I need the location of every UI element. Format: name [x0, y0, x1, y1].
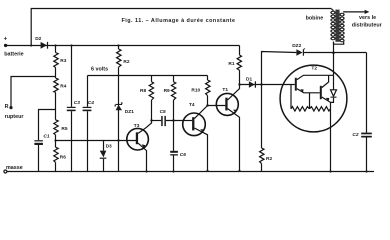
Qb emitter	[322, 97, 331, 172]
rupteur wire	[11, 77, 56, 108]
svg-text:R3: R3	[60, 58, 66, 64]
junction C2/ground	[365, 170, 367, 172]
svg-text:R9: R9	[164, 88, 170, 94]
diode D1	[240, 84, 295, 86]
diode D2	[41, 42, 49, 49]
svg-text:+: +	[4, 37, 8, 43]
wire C1 top	[39, 110, 56, 141]
diode D3	[103, 141, 105, 151]
node battery/R2	[117, 44, 119, 46]
resistor R9	[173, 76, 175, 82]
junction T1 emitter/ground	[238, 170, 240, 172]
svg-text:R4: R4	[60, 84, 66, 90]
svg-text:C2: C2	[352, 132, 358, 138]
protection diode	[333, 75, 335, 90]
coil lead down	[333, 42, 335, 75]
junction C6/ground	[172, 170, 174, 172]
svg-text:T4: T4	[189, 102, 195, 108]
svg-text:vers le: vers le	[359, 15, 376, 21]
resistor R3	[55, 46, 57, 53]
svg-text:batterie: batterie	[4, 52, 23, 58]
capacitor C2	[361, 133, 372, 138]
node battery/C3	[70, 44, 72, 46]
svg-text:C6: C6	[180, 152, 186, 158]
svg-text:D1: D1	[246, 77, 252, 83]
Qa bar	[295, 78, 297, 91]
capacitor C3	[71, 46, 73, 107]
Qb collector	[322, 75, 329, 87]
transistor T3	[127, 128, 149, 150]
Qa emitter	[297, 89, 320, 93]
svg-text:C3: C3	[74, 100, 80, 106]
svg-text:T3: T3	[134, 123, 140, 129]
resistor R5	[54, 120, 58, 135]
resistor R4	[54, 78, 58, 92]
svg-text:R5: R5	[61, 126, 67, 132]
junction T4 emitter/ground	[206, 170, 208, 172]
svg-text:R2: R2	[123, 59, 129, 65]
zener DZ2	[296, 48, 305, 55]
svg-text:DZ1: DZ1	[125, 109, 134, 115]
svg-text:C5: C5	[160, 109, 166, 115]
zener DZ1	[118, 76, 120, 172]
T1 base wire	[208, 105, 226, 107]
svg-text:D3: D3	[106, 144, 112, 150]
node riser junction	[30, 44, 32, 46]
battery terminal	[4, 44, 7, 47]
base line (T3 base net)	[56, 140, 137, 142]
resistor R2 bottom	[260, 148, 264, 164]
resistor R2 top	[118, 46, 120, 50]
svg-text:R10: R10	[191, 87, 200, 93]
darlington module T2	[280, 65, 347, 132]
junction T2 emitter/ground	[329, 170, 331, 172]
capacitor C4	[87, 76, 89, 107]
capacitor C1	[34, 140, 43, 145]
svg-text:6 volts: 6 volts	[91, 66, 108, 72]
transistor T4	[183, 113, 206, 136]
wire to distributor arrowhead	[365, 10, 370, 14]
svg-text:distributeur: distributeur	[352, 23, 383, 29]
resistor R10	[207, 76, 209, 81]
svg-text:C1: C1	[43, 134, 49, 140]
resistor R6	[54, 147, 58, 162]
coil top connections	[332, 9, 334, 11]
DZ2 net	[262, 52, 297, 85]
capacitor C6	[170, 151, 178, 156]
capacitor C5	[152, 120, 162, 122]
svg-text:T1: T1	[222, 87, 228, 93]
svg-text:masse: masse	[6, 165, 23, 171]
right rail to C2	[366, 53, 368, 133]
six volts rail	[88, 75, 208, 77]
svg-text:Fig. 11. – Allumage à durée co: Fig. 11. – Allumage à durée constante	[122, 18, 236, 24]
top rail	[31, 9, 331, 46]
Qa collector	[297, 75, 334, 80]
node R5/R6 base line	[54, 139, 56, 141]
base resistor Ra	[290, 85, 292, 109]
svg-text:R6: R6	[60, 155, 66, 161]
svg-text:bobine: bobine	[306, 16, 324, 22]
ignition coil bobine	[330, 10, 344, 43]
svg-text:C4: C4	[88, 100, 94, 106]
junction T3 emitter/ground	[145, 170, 147, 172]
ground rail masse	[7, 171, 374, 173]
svg-text:D2: D2	[35, 36, 41, 42]
svg-text:R1: R1	[228, 61, 234, 67]
wire battery line	[6, 45, 240, 47]
svg-text:rupteur: rupteur	[5, 114, 25, 120]
resistor R1	[239, 46, 241, 56]
svg-text:R: R	[5, 104, 9, 110]
resistor R8	[151, 76, 153, 82]
base resistor Rb	[309, 93, 311, 109]
transistor T1	[216, 93, 238, 115]
svg-text:T2: T2	[311, 66, 317, 72]
svg-text:R2: R2	[266, 156, 272, 162]
Qb bar	[320, 86, 322, 99]
node battery/R3	[54, 44, 56, 46]
coil bottom connections	[334, 42, 344, 44]
svg-text:DZ2: DZ2	[292, 43, 301, 49]
svg-text:R8: R8	[140, 88, 146, 94]
